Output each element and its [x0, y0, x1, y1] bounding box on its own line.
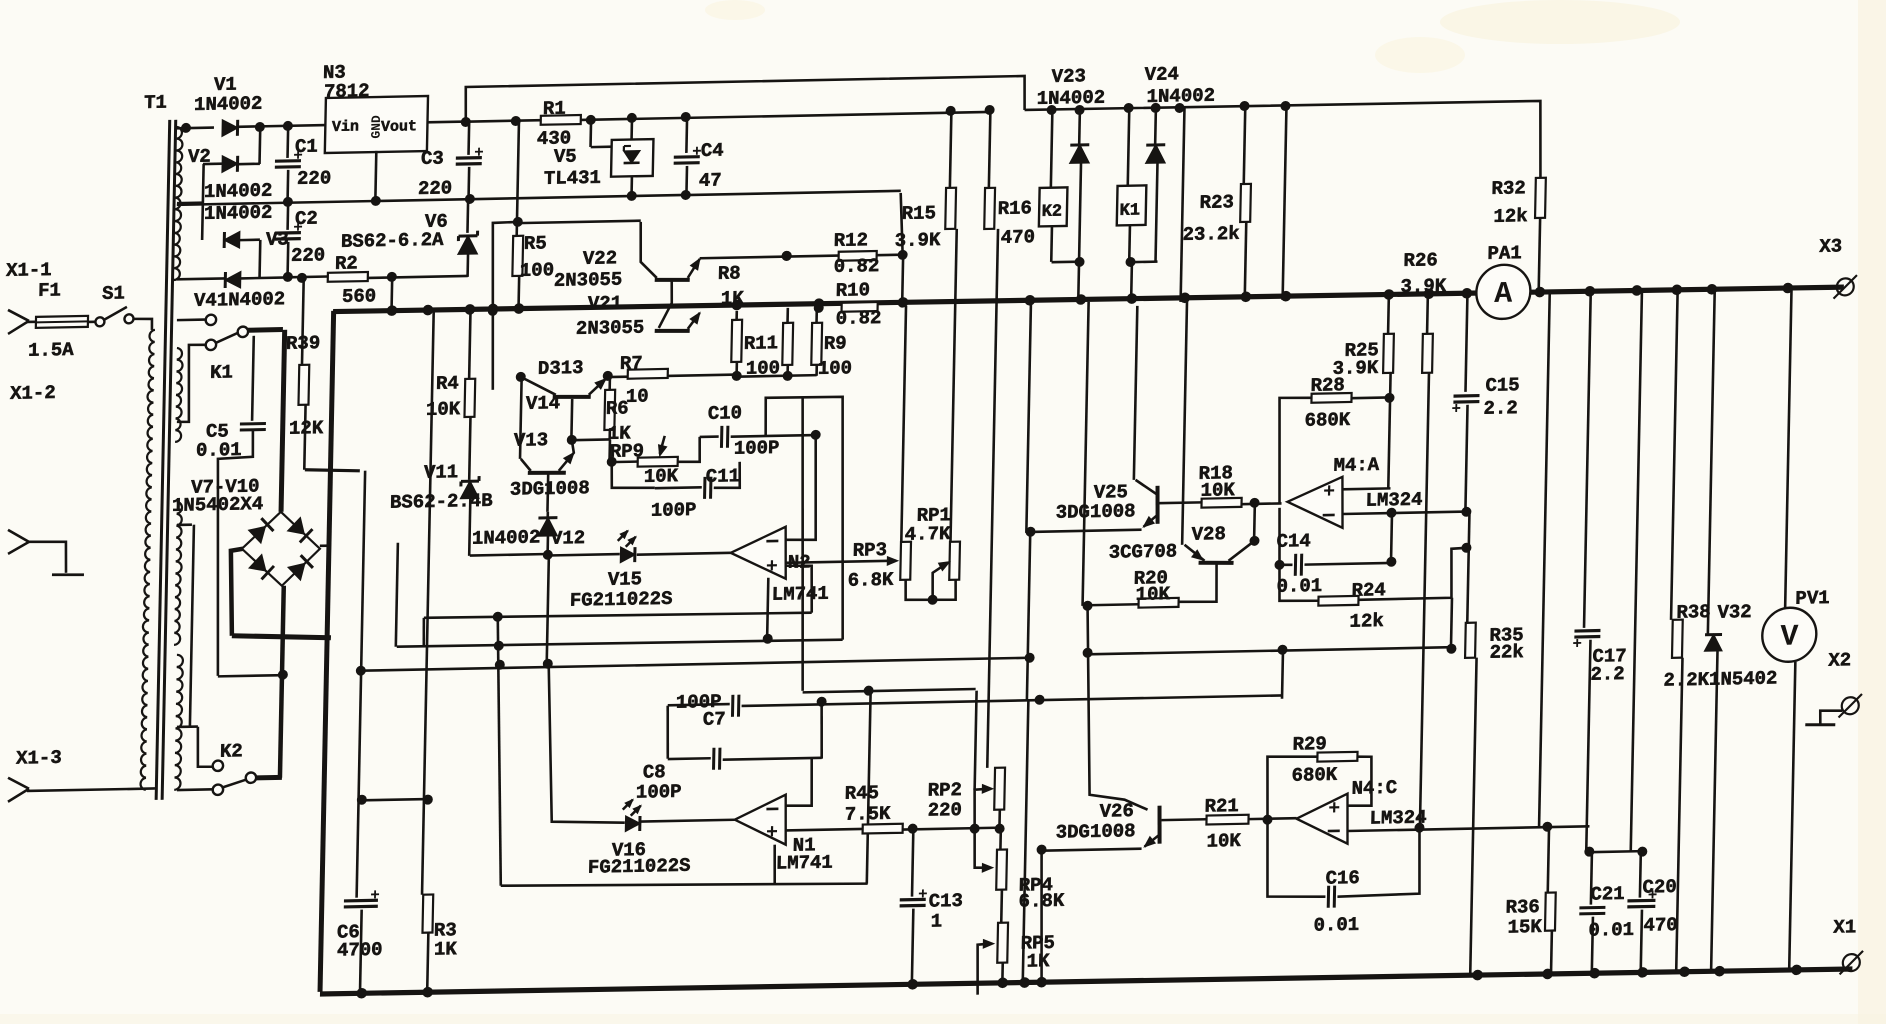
feedback rail B [397, 638, 843, 648]
wire R25 column lower segment [1390, 513, 1394, 562]
wire N3 Vout to rail [427, 120, 466, 123]
resistor R18 [1201, 498, 1241, 508]
potentiometer RP5 [997, 923, 1008, 963]
wire V3 to lower tap [240, 238, 260, 241]
wire raw rail to R2 [288, 275, 328, 278]
wire ground rail extension to sense node [686, 191, 901, 195]
wire C7 left leg [667, 706, 669, 759]
wire loop to RP2 wiper [797, 397, 809, 691]
wire bridge bottom column [280, 586, 284, 778]
svg-text:7812: 7812 [324, 80, 370, 103]
svg-text:TL431: TL431 [544, 167, 601, 190]
resistor R11 [786, 308, 789, 323]
svg-text:220: 220 [291, 244, 326, 267]
feedback rail C [360, 658, 1030, 671]
svg-text:15K: 15K [1507, 916, 1542, 939]
wire M4A noninverting input [1342, 487, 1390, 491]
svg-text:X1-2: X1-2 [10, 382, 56, 405]
svg-text:10K: 10K [1200, 479, 1235, 502]
svg-text:4700: 4700 [337, 939, 383, 962]
thick vertical bus left [320, 311, 334, 992]
wire N1 feedback riser [867, 691, 871, 884]
capacitor C14 [1278, 508, 1293, 565]
wire R24 leg to mid rail [1451, 598, 1452, 650]
wire 12V rail [466, 120, 541, 121]
svg-text:FG211022S: FG211022S [588, 855, 691, 879]
potentiometer RP1 [949, 542, 960, 580]
resistor R23 [1244, 106, 1246, 184]
bus junction dots [387, 305, 398, 316]
capacitor C2 [286, 203, 289, 230]
diode V24 [1154, 108, 1157, 144]
resistor R20 [1138, 598, 1178, 608]
relay contact K2 [213, 760, 224, 771]
svg-text:+: + [1328, 798, 1340, 821]
LED V15 [621, 547, 636, 562]
diode V3 [224, 232, 240, 248]
svg-text:C2: C2 [295, 208, 318, 230]
svg-text:560: 560 [342, 285, 377, 308]
svg-text:3DG1008: 3DG1008 [1056, 500, 1136, 524]
svg-text:R21: R21 [1204, 795, 1239, 818]
RP5 wiper arrow [977, 944, 991, 995]
wire V28 base to R20 [1178, 563, 1217, 603]
wire rail column x1286 [1283, 106, 1287, 300]
svg-text:100P: 100P [734, 437, 780, 460]
wire rung to bridge column [218, 675, 282, 676]
op-amp N1 LM741 [641, 820, 735, 822]
wire K1 pole thick [248, 327, 283, 333]
svg-text:100P: 100P [636, 781, 682, 804]
svg-text:K1: K1 [1119, 201, 1140, 220]
capacitor C20 [1639, 852, 1643, 898]
wire M4A inverting input rail [1342, 512, 1466, 514]
svg-text:RP3: RP3 [853, 539, 888, 562]
svg-text:R38: R38 [1676, 601, 1711, 624]
bottom negative bus [320, 964, 1853, 999]
svg-text:1N4002: 1N4002 [194, 93, 263, 116]
svg-text:R12: R12 [834, 229, 869, 252]
svg-text:V12: V12 [551, 527, 586, 550]
wire R45 to RP2 [903, 828, 996, 830]
wire C11 left leg [611, 461, 655, 489]
resistor R3 [422, 894, 433, 932]
wire C8 to N1 inverting input [821, 702, 823, 759]
terminal X1-2 lead [8, 529, 29, 542]
capacitor C6 [344, 899, 378, 903]
svg-text:7.5K: 7.5K [845, 803, 892, 826]
svg-text:10: 10 [626, 385, 649, 407]
svg-text:X2: X2 [1828, 649, 1851, 671]
voltmeter PV1 [1785, 288, 1791, 608]
zener diode V11 [469, 417, 470, 480]
svg-text:100P: 100P [651, 499, 697, 522]
wire V1 cathode to N3 Vin [238, 125, 326, 127]
wire winding tap column [177, 523, 192, 526]
svg-text:R29: R29 [1292, 733, 1327, 756]
capacitor C17 column [1584, 291, 1591, 628]
svg-text:V24: V24 [1144, 63, 1179, 86]
svg-text:0.01: 0.01 [1276, 575, 1322, 598]
wire V2 cathode up to V1 node [258, 128, 261, 164]
svg-text:10K: 10K [1135, 583, 1170, 606]
svg-text:R10: R10 [836, 279, 871, 302]
wire R2 node down to bus [390, 277, 393, 311]
resistor R35 [1467, 512, 1469, 623]
resistor R25 [1387, 296, 1390, 334]
svg-text:1.5A: 1.5A [28, 339, 75, 362]
wire R21 to N4C output [1249, 817, 1297, 821]
main positive bus [333, 282, 1844, 316]
transformer T1 secondary winding 4 [174, 655, 183, 790]
resistor R15 [950, 111, 952, 188]
svg-text:V41N4002: V41N4002 [194, 288, 286, 312]
svg-text:LM324: LM324 [1365, 489, 1422, 512]
resistor R2 [328, 272, 368, 282]
resistor R5 [517, 121, 519, 236]
wire N3 output top rail [465, 76, 1025, 122]
regulator N3 7812 box [325, 96, 428, 153]
transformer T1 secondary winding 2 [175, 348, 183, 442]
svg-text:C14: C14 [1276, 530, 1311, 553]
capacitor C10 [720, 426, 723, 448]
bridge diode V7 [248, 527, 265, 544]
resistor R8 [735, 311, 738, 320]
wire V13 base column to V12 [546, 473, 549, 512]
svg-text:2.2: 2.2 [1483, 397, 1518, 420]
svg-text:C4: C4 [701, 140, 724, 162]
svg-text:R45: R45 [845, 782, 880, 805]
svg-text:220: 220 [418, 177, 453, 200]
wire R39 bottom to rail leg [305, 469, 360, 472]
svg-text:T1: T1 [144, 92, 167, 114]
diode V4 [225, 272, 241, 288]
wire C6 column [357, 795, 367, 805]
bridge diode V10 [288, 563, 305, 580]
svg-text:C20: C20 [1642, 876, 1677, 899]
12V distribution rail [1023, 100, 1542, 188]
svg-text:3CG708: 3CG708 [1108, 540, 1177, 563]
svg-text:220: 220 [297, 167, 332, 190]
wire V2 anode down to center tap [202, 164, 204, 240]
svg-text:R24: R24 [1351, 579, 1386, 602]
wire N2 noninverting to RP3 [786, 561, 896, 563]
svg-text:R15: R15 [902, 202, 937, 225]
wire V22 collector junction [782, 251, 792, 261]
wire N3 GND pin [375, 151, 376, 201]
potentiometer RP9 [638, 457, 678, 467]
svg-text:12K: 12K [289, 417, 324, 440]
svg-text:A: A [1494, 278, 1513, 312]
resistor R36 [1548, 827, 1549, 893]
svg-text:2.2K1N5402: 2.2K1N5402 [1663, 667, 1777, 691]
wire V15 anode [548, 554, 620, 555]
wire RP3 top column [901, 306, 906, 542]
svg-text:1N4002: 1N4002 [204, 180, 273, 203]
resistor R29 [1266, 756, 1317, 820]
svg-text:V23: V23 [1051, 65, 1086, 88]
capacitor C15 [1465, 295, 1467, 392]
svg-text:R5: R5 [524, 232, 547, 254]
op-amp N4:C LM324 [1296, 794, 1349, 845]
svg-text:R1: R1 [543, 98, 566, 120]
svg-text:R7: R7 [620, 352, 643, 374]
svg-text:R16: R16 [998, 197, 1033, 220]
wire V5 cathode to rail [630, 118, 633, 140]
svg-text:GND: GND [369, 115, 384, 139]
svg-text:+: + [766, 822, 778, 845]
svg-text:3.9K: 3.9K [1400, 275, 1447, 298]
potentiometer RP4 [999, 829, 1002, 850]
svg-text:X1: X1 [1833, 916, 1856, 938]
wire C5 bottom column [214, 430, 254, 676]
svg-text:1K: 1K [721, 287, 745, 309]
capacitor C13 [912, 829, 913, 897]
svg-text:Vin: Vin [332, 118, 359, 136]
svg-text:V13: V13 [514, 429, 549, 452]
svg-text:2N3055: 2N3055 [576, 317, 645, 340]
wire V13 collector rail [520, 377, 522, 459]
wire V5 anode to ground rail [630, 176, 633, 196]
resistor R12 [839, 251, 877, 261]
resistor R7 [628, 369, 668, 379]
svg-text:100: 100 [520, 259, 555, 282]
svg-text:C15: C15 [1485, 374, 1520, 397]
capacitor C21 [1591, 852, 1592, 905]
svg-text:BS62-6.2A: BS62-6.2A [341, 229, 445, 253]
ground stub at X2 [1820, 710, 1842, 723]
svg-text:V22: V22 [583, 247, 618, 270]
svg-text:47: 47 [699, 169, 722, 191]
wire R5 node to V13 column [490, 222, 518, 390]
resistor R32 [1535, 178, 1546, 218]
svg-text:C3: C3 [421, 147, 444, 169]
wire rail column x1185 [1181, 108, 1185, 302]
wire K1 lower throw to tap [177, 345, 206, 423]
wire column x1283 down [1281, 650, 1285, 699]
wire RP9 right leg [678, 437, 701, 462]
svg-text:R11: R11 [744, 332, 779, 355]
svg-text:+: + [1323, 481, 1335, 504]
relay coil K1 box [1117, 185, 1147, 225]
wire V12 node column down [547, 555, 549, 665]
op-amp N2 LM741 [637, 553, 731, 555]
svg-text:3DG1008: 3DG1008 [1056, 820, 1136, 844]
wire column x1548 R36 [1539, 292, 1550, 827]
transistor V22 2N3055 [655, 279, 690, 280]
wire junction y853 [1589, 851, 1642, 852]
svg-text:K2: K2 [1041, 203, 1062, 222]
transistor V26 3DG1008 [1159, 806, 1161, 844]
resistor R26 [1422, 334, 1433, 373]
wire V22 emitter rail to R12 [700, 256, 839, 259]
RP2 wiper arrow [974, 789, 990, 829]
svg-text:100: 100 [818, 357, 853, 380]
svg-text:470: 470 [1001, 226, 1036, 249]
wire N4C inverting rail [1347, 826, 1589, 831]
wire K2 upper throw riser [197, 726, 214, 767]
svg-text:V5: V5 [554, 145, 577, 167]
wire RP1 wiper arrow [932, 563, 948, 600]
svg-text:R9: R9 [824, 332, 847, 354]
feedback rail A [424, 610, 812, 620]
svg-text:C21: C21 [1590, 883, 1625, 906]
wire column x995 RP2 feed [987, 229, 998, 768]
svg-text:N4:C: N4:C [1351, 777, 1397, 800]
resistor R24 [1279, 564, 1319, 601]
diode V1 [222, 120, 238, 136]
svg-text:0.82: 0.82 [834, 255, 880, 278]
wire V5 reference [589, 120, 592, 147]
shunt reference V5 TL431 box [611, 139, 653, 177]
resistor R4 [469, 313, 470, 379]
diode V12 1N4002 [538, 518, 557, 536]
svg-text:0.01: 0.01 [1588, 919, 1634, 942]
resistor R39 [297, 273, 307, 283]
svg-text:LM741: LM741 [772, 583, 829, 606]
svg-text:C13: C13 [928, 890, 963, 913]
relay coil K2 box [1039, 187, 1068, 226]
svg-text:V11: V11 [424, 461, 459, 484]
ground rail of regulator section [177, 195, 686, 205]
wire bridge left arm thick elbow [229, 549, 243, 636]
svg-text:10K: 10K [644, 465, 679, 488]
svg-text:R26: R26 [1403, 249, 1438, 272]
svg-text:C11: C11 [706, 465, 741, 488]
relay contact K1 [177, 318, 205, 321]
svg-text:R39: R39 [286, 332, 321, 355]
capacitor C17 [1574, 629, 1600, 633]
svg-text:R4: R4 [436, 372, 459, 394]
svg-text:0.82: 0.82 [836, 307, 882, 330]
resistor R21 [1206, 815, 1248, 825]
svg-text:22k: 22k [1489, 641, 1524, 664]
resistor R16 [989, 110, 991, 188]
svg-text:F1: F1 [38, 279, 61, 301]
svg-text:3.9K: 3.9K [1332, 357, 1379, 380]
wire N1 output to feedback [774, 845, 776, 884]
terminal X1-1 lead [8, 310, 29, 322]
svg-text:FG211022S: FG211022S [570, 588, 673, 612]
wire RP1 RP3 bottoms [905, 579, 956, 601]
wire N1 noninverting to R45 [786, 829, 863, 831]
wire K2 pole thick [256, 775, 282, 781]
fuse F1 [36, 316, 88, 328]
svg-text:X1-3: X1-3 [16, 747, 62, 770]
mid rail y655 [1087, 647, 1451, 654]
svg-text:C7: C7 [703, 708, 726, 730]
svg-text:23.2k: 23.2k [1182, 223, 1239, 246]
wire column x1637 C20 [1631, 290, 1642, 852]
svg-text:M4:A: M4:A [1333, 454, 1380, 477]
svg-text:V32: V32 [1717, 601, 1752, 624]
svg-text:K1: K1 [210, 361, 233, 383]
capacitor C8 [712, 748, 715, 770]
LED V16 [626, 816, 640, 831]
capacitor C11 [703, 477, 706, 499]
svg-text:V2: V2 [188, 146, 211, 168]
svg-text:4.7K: 4.7K [905, 523, 952, 546]
wire S1 to transformer primary [133, 319, 152, 331]
svg-text:V28: V28 [1191, 523, 1226, 546]
transformer T1 secondary winding 1 [174, 127, 183, 280]
svg-text:R2: R2 [335, 252, 358, 274]
transistor V13 3DG1008 [528, 472, 566, 473]
svg-text:Vout: Vout [381, 118, 417, 136]
resistor R45 [863, 824, 903, 834]
capacitor C4 [685, 117, 688, 153]
svg-text:680K: 680K [1304, 409, 1351, 432]
svg-text:R8: R8 [718, 262, 741, 284]
svg-text:0.01: 0.01 [1313, 914, 1359, 937]
capacitor C3 [467, 124, 470, 155]
svg-text:V14: V14 [526, 392, 561, 415]
svg-text:1N4002: 1N4002 [472, 526, 541, 549]
svg-text:V21: V21 [588, 292, 623, 315]
svg-text:C10: C10 [708, 402, 743, 425]
resistor R28 [1277, 397, 1311, 504]
svg-text:R32: R32 [1491, 177, 1526, 200]
resistor R9 [815, 307, 818, 323]
wire PV1 to bottom bus [1789, 662, 1795, 971]
capacitor C5 [252, 336, 254, 421]
wire K1 column to bus [1130, 262, 1133, 302]
svg-text:6.8K: 6.8K [848, 569, 895, 592]
svg-text:1K: 1K [1026, 950, 1050, 972]
op-amp M4:A LM324 [1287, 477, 1344, 529]
wire V26 base to R21 [1162, 818, 1207, 821]
wire C6 to R3 top [362, 799, 428, 800]
ammeter PA1 [1476, 264, 1531, 319]
svg-text:V15: V15 [608, 568, 643, 591]
wire bridge right arm [320, 544, 330, 547]
wire secondary tap to V1 [177, 126, 214, 129]
svg-text:12k: 12k [1349, 610, 1384, 633]
svg-text:3.9K: 3.9K [895, 229, 942, 252]
wire x1088 down to V26 [1083, 604, 1151, 810]
transistor V14 D313 [553, 396, 591, 397]
wire column x1088 [1083, 302, 1089, 606]
transformer T1 primary winding [140, 330, 155, 790]
svg-text:C1: C1 [295, 136, 318, 158]
diode V2 [203, 162, 222, 165]
diode V32 [1708, 289, 1715, 635]
potentiometer RP3 [900, 542, 911, 580]
svg-text:X1-1: X1-1 [6, 259, 52, 282]
terminal X3 [1837, 278, 1854, 295]
zener diode V6 [466, 199, 469, 233]
bridge diode V8 [288, 517, 305, 534]
wire N2 bottom leg to rail [767, 578, 768, 640]
resistor R38 [1671, 290, 1678, 620]
wire V25 base to R18 [1158, 501, 1202, 504]
capacitor C1 [286, 126, 289, 158]
wire R12 to bus node [877, 253, 903, 256]
diode V23 [1078, 110, 1081, 144]
capacitor C16 [1266, 818, 1327, 897]
svg-text:1: 1 [930, 910, 942, 932]
wire R6 to RP9 [608, 440, 611, 462]
transistor V21 2N3055 [655, 330, 690, 331]
svg-text:1N4002: 1N4002 [1036, 87, 1105, 110]
svg-text:3DG1008: 3DG1008 [510, 477, 590, 501]
RP4 wiper arrow [974, 828, 991, 868]
thick wire K1 pole to bridge [281, 330, 285, 512]
svg-text:R6: R6 [606, 397, 629, 419]
base resistor wire [608, 375, 737, 378]
wire V16 anode from column [546, 665, 628, 824]
svg-text:+: + [766, 556, 778, 579]
